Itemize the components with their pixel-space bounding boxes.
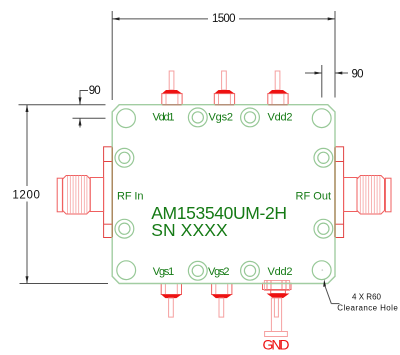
pin Vdd2 top: nut body bbox=[268, 94, 288, 105]
GND stem bbox=[271, 298, 281, 332]
svg-text:Vgs2: Vgs2 bbox=[208, 266, 230, 278]
dim 90 top-right extension line bbox=[321, 65, 323, 98]
dim 1200 extension line bottom bbox=[20, 283, 109, 285]
svg-text:SN XXXX: SN XXXX bbox=[151, 220, 228, 240]
pin seat overlap marks on top edge bbox=[162, 104, 287, 106]
svg-text:1200: 1200 bbox=[12, 190, 40, 202]
svg-text:4 X R60: 4 X R60 bbox=[352, 293, 382, 302]
pin Vgs1 bottom: nut body bbox=[161, 284, 181, 295]
svg-text:GND: GND bbox=[263, 336, 290, 352]
GND collar bbox=[271, 290, 286, 294]
pin Vgs2 top: stem bbox=[222, 71, 227, 90]
feedthru hole right-lower bbox=[314, 219, 333, 238]
feedthru hole bottom-1 bbox=[188, 261, 207, 280]
pin Vgs2 top: nut body bbox=[214, 94, 234, 105]
body outline (chamfered plate) bbox=[112, 105, 335, 284]
dim 1200 dimension line bbox=[26, 105, 28, 186]
pin Vdd1 top: nut body bbox=[162, 94, 182, 105]
feedthru hole right-upper bbox=[314, 148, 333, 167]
RF Out knurl lines bbox=[360, 176, 380, 215]
corner clearance hole bottom-left bbox=[117, 261, 136, 280]
arrow 1500 right bbox=[328, 17, 335, 20]
corner clearance hole top-left bbox=[117, 109, 136, 128]
svg-text:RF Out: RF Out bbox=[296, 191, 332, 203]
pin Vdd1 top: stem bbox=[169, 71, 174, 90]
svg-text:Clearance Hole: Clearance Hole bbox=[337, 304, 398, 313]
feedthru hole bottom-2 bbox=[241, 261, 260, 280]
RF Out connector flange bbox=[335, 147, 344, 238]
dim 90 left extension line lower bbox=[73, 117, 106, 119]
svg-text:Vgs2: Vgs2 bbox=[209, 112, 234, 124]
corner clearance hole top-right bbox=[312, 109, 331, 128]
RF In connector knurled nut bbox=[63, 176, 90, 215]
RF In knurl lines bbox=[68, 176, 87, 215]
svg-text:90: 90 bbox=[89, 85, 101, 97]
pin Vgs2 top: cone bbox=[214, 90, 234, 94]
dim 90 top-right dimension line bbox=[305, 72, 322, 74]
center mark of bottom-right hole bbox=[322, 269, 324, 271]
corner clearance hole bottom-right bbox=[312, 261, 331, 280]
pin Vdd2 top: cone bbox=[268, 90, 288, 94]
arrow 1200 bottom bbox=[26, 276, 29, 283]
leader arrow to clearance hole bbox=[323, 279, 326, 287]
GND stem slot bbox=[274, 298, 278, 317]
GND cone bbox=[267, 294, 290, 299]
GND nut body bbox=[263, 283, 292, 289]
dim 1500 extension line left bbox=[111, 11, 113, 100]
pin Vgs1 bottom: cone bbox=[161, 295, 181, 299]
RF In connector body section bbox=[90, 178, 103, 212]
pin Vgs1 bottom: stem bbox=[169, 298, 174, 317]
arrow 1500 left bbox=[112, 17, 119, 20]
arrow 90 top-right left-tip bbox=[315, 72, 322, 75]
feedthru hole top-2 bbox=[241, 108, 260, 127]
svg-text:Vgs1: Vgs1 bbox=[153, 266, 175, 278]
svg-text:RF In: RF In bbox=[117, 191, 144, 203]
RF Out connector body section bbox=[344, 178, 357, 212]
dim 1500 extension line right bbox=[334, 11, 336, 98]
arrow 1200 top bbox=[26, 105, 29, 112]
arrow 90 top-right right-tip bbox=[335, 72, 342, 75]
svg-text:90: 90 bbox=[352, 69, 364, 81]
RF Out connector end cap bbox=[385, 178, 391, 212]
feedthru hole top-1 bbox=[188, 108, 207, 127]
svg-text:Vdd2: Vdd2 bbox=[268, 266, 293, 278]
feedthru hole left-lower bbox=[115, 219, 134, 238]
feedthru hole left-upper bbox=[115, 148, 134, 167]
pin Vdd1 top: cone bbox=[162, 90, 182, 94]
svg-text:1500: 1500 bbox=[212, 13, 236, 25]
svg-text:Vdd1: Vdd1 bbox=[153, 112, 175, 124]
arrow 90 left up-tip bbox=[79, 118, 82, 125]
flange overlap marks on side edges bbox=[112, 147, 335, 237]
pin Vgs2 bottom: cone bbox=[212, 295, 232, 299]
RF In connector flange bbox=[104, 147, 113, 238]
dim 1500 dimension line bbox=[112, 18, 208, 20]
pin Vgs2 bottom: stem bbox=[219, 298, 224, 317]
arrow 90 left down-tip bbox=[79, 97, 82, 104]
RF In connector end cap bbox=[57, 178, 62, 212]
dim 90 left leader bbox=[80, 91, 88, 105]
dim 90 left extension line upper bbox=[19, 104, 106, 106]
pin Vgs2 bottom: nut body bbox=[212, 284, 232, 295]
GND bottom cap bbox=[265, 332, 288, 337]
svg-text:Vdd2: Vdd2 bbox=[268, 112, 293, 124]
pin Vdd2 top: stem bbox=[275, 71, 280, 90]
RF Out connector knurled nut bbox=[357, 176, 385, 215]
